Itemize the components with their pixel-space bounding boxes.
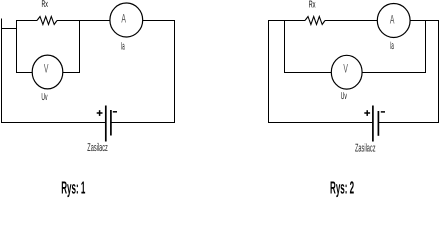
resistor Rx (circuit 2) (305, 17, 325, 25)
wire: top wire left segment to resistor (circuit 2) (268, 20, 305, 22)
voltmeter circle (circuit 2) (331, 55, 362, 89)
wire: bottom wire right of battery (circuit 2) (378, 122, 438, 124)
wire: top wire left segment to resistor (circuit 1) (17, 20, 38, 22)
wire: top wire resistor-to-ammeter segment (circuit 2) (325, 20, 378, 22)
wire: voltmeter branch horizontal left (circuit 1) (17, 72, 33, 74)
svg-text:V: V (343, 62, 348, 76)
label - sign (circuit 1) (113, 111, 117, 113)
svg-text:Rys: 2: Rys: 2 (330, 178, 354, 198)
wire: voltmeter branch horizontal left (circuit 2) (285, 72, 332, 74)
wire: left outer vertical (circuit 2) (268, 20, 270, 123)
wire: top wire ammeter-to-right segment (circuit 1) (143, 20, 175, 22)
svg-text:Rx: Rx (42, 0, 49, 10)
wire: voltmeter branch left vertical (circuit 1) (16, 20, 18, 73)
label + sign (circuit 2) (364, 110, 370, 116)
svg-text:Zasilacz: Zasilacz (87, 142, 108, 154)
wire: right outer vertical (circuit 2) (438, 20, 440, 123)
wire: left connector horizontal (circuit 1) (1, 28, 17, 30)
wire: left outer vertical (circuit 1) (1, 19, 3, 124)
wire: right outer vertical (circuit 1) (174, 20, 176, 123)
svg-text:Uv: Uv (341, 91, 347, 102)
wire: voltmeter branch right vertical (circuit 2) (425, 20, 427, 73)
resistor Rx (circuit 1) (37, 17, 57, 25)
svg-text:Zasilacz: Zasilacz (355, 143, 376, 155)
wire: bottom wire left of battery (circuit 2) (268, 122, 372, 124)
wire: voltmeter branch horizontal right (circuit 1) (63, 72, 80, 74)
wire: voltmeter branch left vertical (circuit 2) (284, 20, 286, 73)
svg-text:V: V (44, 61, 49, 75)
ammeter circle (circuit 2) (377, 4, 410, 38)
label + sign (circuit 1) (97, 110, 103, 116)
voltmeter circle (circuit 1) (32, 55, 63, 89)
wire: bottom wire left of battery (circuit 1) (1, 122, 105, 124)
svg-text:A: A (390, 12, 395, 26)
battery long plate + (circuit 2) (372, 106, 374, 142)
label - sign (circuit 2) (381, 111, 385, 113)
wire: top wire resistor-to-ammeter segment (circuit 1) (57, 20, 110, 22)
ammeter U:A circle (circuit 1) (110, 3, 143, 37)
svg-text:Rys: 1: Rys: 1 (61, 178, 85, 198)
wire: bottom wire right of battery (circuit 1) (111, 122, 175, 124)
svg-text:A: A (121, 12, 126, 26)
svg-text:Ia: Ia (390, 40, 394, 52)
battery short plate - (circuit 2) (377, 111, 379, 136)
svg-text:Rx: Rx (309, 0, 316, 11)
wire: voltmeter branch horizontal right (circuit 2) (362, 72, 426, 74)
svg-text:Uv: Uv (41, 92, 47, 103)
wire: top wire ammeter-to-right segment (circuit 2) (410, 20, 439, 22)
battery long plate + (circuit 1) (105, 106, 107, 142)
svg-text:Ia: Ia (121, 41, 125, 53)
wire: voltmeter branch right vertical (circuit 1) (79, 20, 81, 73)
battery short plate - (circuit 1) (110, 110, 112, 136)
